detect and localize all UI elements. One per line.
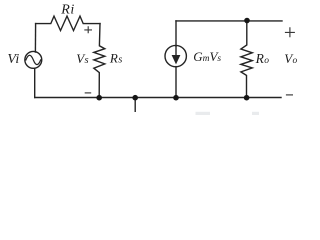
svg-text:Ri: Ri: [60, 3, 74, 18]
svg-text:Vi: Vi: [7, 52, 19, 67]
